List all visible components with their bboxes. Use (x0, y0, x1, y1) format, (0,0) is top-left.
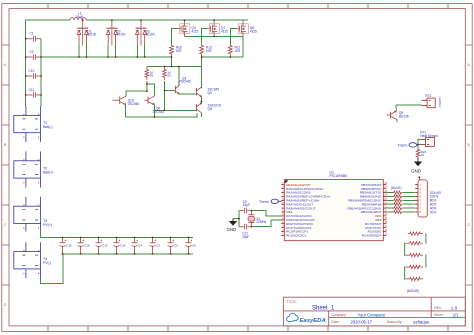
transistor Q7 (MOSFET 4115) (208, 20, 228, 36)
resistor ladder row 2 (405, 242, 424, 245)
svg-text:2SC945: 2SC945 (128, 102, 140, 106)
resistor 1K row 4 (393, 195, 403, 198)
wire RT1 net (418, 140, 421, 149)
svg-text:C6: C6 (192, 244, 196, 248)
capacitor C5 (168, 238, 179, 254)
node junctions crystal (238, 210, 252, 228)
capacitor C2 (26, 50, 41, 60)
svg-text:Q8: Q8 (208, 107, 212, 111)
node junction cap C16 (80, 237, 82, 255)
net flag Therm at IC (259, 199, 281, 204)
svg-text:2SC945: 2SC945 (179, 80, 191, 84)
svg-text:EasyEDA: EasyEDA (300, 318, 326, 324)
resistor ladder row 4 (405, 265, 424, 268)
resistor ladder row 3 (405, 253, 424, 256)
wire gate Q7 to R13 (202, 29, 208, 45)
svg-text:C13: C13 (102, 244, 108, 248)
wire ladder left bracket 2 (404, 243, 406, 256)
svg-text:PIC16F886: PIC16F886 (330, 174, 347, 178)
node junction cap C14 (116, 237, 118, 255)
wire left column (25, 20, 27, 106)
svg-text:Batt(+): Batt(+) (43, 170, 53, 174)
title block (283, 297, 465, 326)
wire Q3 emitter to Q5 base (179, 93, 197, 95)
bargraph labels (430, 191, 442, 215)
connector RT1 Heat Sensor (420, 131, 439, 147)
svg-text:30100: 30100 (87, 33, 96, 37)
resistor 1K row 6 (393, 203, 403, 206)
svg-text:GND: GND (411, 168, 421, 173)
svg-text:Therm: Therm (259, 200, 269, 204)
node junction bottom rail (154, 116, 156, 118)
svg-text:Batt(-): Batt(-) (43, 125, 52, 129)
op-amp U1 PIC16F886 (284, 171, 383, 241)
svg-text:15pF: 15pF (243, 203, 250, 207)
transistor Q8 (2SA1015) (197, 98, 221, 117)
wire R18 bottom to cluster rail (171, 55, 173, 67)
diode D1 (77, 20, 96, 57)
node junctions cluster (146, 66, 202, 112)
svg-text:4115: 4115 (191, 30, 198, 34)
capacitor C13 (96, 238, 108, 254)
svg-text:(6x10K): (6x10K) (407, 289, 420, 293)
wire R1 net to Q6 and Q10 collectors (126, 81, 155, 96)
diode D3 (135, 20, 154, 57)
capacitor C4 (132, 238, 143, 254)
wire OSC2 to IC (251, 220, 281, 227)
resistor R24 (416, 149, 426, 158)
resistor R2 (163, 67, 172, 81)
resistor 1K row 8 (393, 210, 403, 213)
ground GND crystal (227, 219, 238, 233)
node junction cap C3 (152, 237, 154, 255)
svg-text:R2: R2 (167, 74, 171, 78)
svg-text:30100: 30100 (117, 33, 126, 37)
node junction RT1 (417, 144, 419, 146)
resistor R13 (200, 45, 213, 56)
svg-text:Sheet:: Sheet: (434, 313, 444, 317)
capacitor C1 (26, 32, 41, 42)
svg-text:C1: C1 (30, 32, 34, 36)
svg-text:Your Company: Your Company (358, 312, 386, 317)
wire source rail (185, 36, 244, 38)
wire T4 to cap row (41, 254, 63, 284)
wire cap row bottom rail (63, 253, 194, 255)
svg-text:Q5: Q5 (208, 91, 212, 95)
svg-text:RC4/SDI/SDA: RC4/SDI/SDA (362, 234, 382, 238)
wire gate Q4 to R18 (172, 29, 179, 45)
svg-text:4115: 4115 (250, 30, 257, 34)
transistor Q10 (113, 96, 140, 106)
connector T4 (14, 242, 51, 278)
wire top rail (26, 19, 248, 21)
node junction cap C4 (134, 237, 136, 255)
capacitor C11 (26, 88, 41, 98)
net label (6x10K) (407, 289, 420, 293)
connector RT2 (422, 94, 442, 108)
wire R2 net to bases (154, 81, 196, 111)
EasyEDA logo (287, 313, 326, 324)
svg-text:RC3/SCK/SCL: RC3/SCK/SCL (286, 234, 307, 238)
svg-text:20%: 20% (430, 210, 437, 214)
connector T3 (14, 197, 52, 232)
svg-text:C11: C11 (29, 88, 35, 92)
svg-text:Therm: Therm (398, 143, 408, 147)
svg-text:C15: C15 (66, 244, 72, 248)
node junction cap C5 (170, 237, 172, 255)
resistor 1K row 3 (393, 191, 403, 194)
wire gate Q6 to R12 (230, 29, 237, 45)
node junction cap C13 (98, 237, 100, 255)
svg-text:Sheet_1: Sheet_1 (312, 306, 335, 312)
U1 left pin names (286, 183, 330, 238)
capacitor C3 (150, 238, 161, 254)
transistor Q6b (145, 96, 165, 114)
resistor R18 (170, 45, 183, 56)
resistor ladder row 5 (405, 277, 424, 280)
inductor L1 (70, 12, 86, 20)
svg-text:20MHz: 20MHz (256, 220, 267, 224)
resistor R1 (145, 67, 154, 81)
wire OSC1 to IC (251, 211, 281, 216)
capacitor C16 (78, 238, 90, 254)
diode D2 (106, 20, 125, 57)
svg-text:2020-05-17: 2020-05-17 (351, 319, 373, 324)
U1 pin stubs (281, 185, 386, 236)
LED bargraph DS1 (415, 177, 427, 217)
node junctions mosfet rail (184, 19, 215, 37)
svg-text:C4: C4 (138, 244, 142, 248)
capacitor C6 (186, 238, 197, 254)
svg-text:10R: 10R (235, 49, 242, 53)
node junction cap C6 (188, 237, 190, 255)
wire T3 to cap row (41, 231, 193, 238)
connector T2 (14, 151, 54, 187)
wire ladder right bracket 1 (425, 233, 427, 244)
capacitor C15 (60, 238, 72, 254)
svg-text:C10: C10 (29, 69, 35, 73)
svg-text:Drawn By:: Drawn By: (387, 320, 403, 324)
node junctions rails (78, 19, 146, 58)
svg-text:C16: C16 (84, 244, 90, 248)
transistor Q4 (MOSFET 4115) (179, 20, 199, 36)
wire right column (40, 39, 42, 106)
svg-text:10R: 10R (176, 49, 183, 53)
net label (6x1K) (391, 186, 402, 190)
crystal X1 (248, 211, 267, 227)
svg-text:RT2: RT2 (425, 94, 431, 98)
wire cluster bottom rail (126, 105, 198, 117)
wire cluster top rail (147, 66, 202, 68)
svg-text:1/1: 1/1 (453, 312, 459, 317)
svg-text:(+FAN-): (+FAN-) (438, 97, 442, 108)
wire crystal left column (233, 211, 239, 227)
svg-text:C14: C14 (120, 244, 126, 248)
transistor Q3 (175, 67, 190, 95)
svg-text:PV(+): PV(+) (43, 223, 52, 227)
svg-text:15pF: 15pF (242, 235, 249, 239)
capacitor C12 (239, 224, 251, 239)
svg-text:GND: GND (227, 227, 237, 232)
svg-text:azhaque: azhaque (413, 319, 430, 324)
U1 pin numbers (282, 182, 388, 236)
wire ladder left bracket 4 (404, 267, 406, 280)
transistor Q5 (197, 87, 220, 98)
svg-text:BD136: BD136 (399, 114, 409, 118)
svg-text:Company:: Company: (331, 313, 347, 317)
svg-text:C3: C3 (156, 244, 160, 248)
transistor Q6 (MOSFET 4115) (237, 20, 257, 36)
ground GND sensor (411, 158, 422, 174)
svg-text:1.0: 1.0 (451, 305, 458, 310)
svg-text:(6x1K): (6x1K) (391, 186, 402, 190)
wire lower rail (41, 56, 172, 58)
resistor 1K row 5 (393, 199, 403, 202)
resistor 1K row 7 (393, 207, 403, 210)
U1 right pin names (348, 183, 383, 238)
transistor Q9 BD136 (387, 105, 409, 123)
capacitor C10 (26, 69, 41, 79)
bargraph pin numbers (419, 183, 421, 214)
net flag Therm at sensor (398, 143, 419, 148)
svg-text:REV: REV (434, 306, 442, 310)
svg-text:TITLE:: TITLE: (287, 300, 297, 304)
svg-text:30100: 30100 (146, 33, 155, 37)
svg-text:C2: C2 (30, 50, 34, 54)
svg-text:4115: 4115 (221, 30, 228, 34)
svg-text:R1: R1 (150, 74, 154, 78)
capacitor C9 (239, 200, 251, 213)
resistor R12 (228, 45, 241, 56)
wire ladder right bracket 3 (425, 255, 427, 268)
wire bargraph rows (386, 193, 415, 213)
connector T1 (14, 106, 53, 142)
node junctions R bank (171, 56, 232, 58)
wire Q9 to RT2 (396, 104, 422, 106)
svg-text:C5: C5 (174, 244, 178, 248)
node junctions left column (25, 38, 42, 96)
node junction bargraph top (418, 176, 420, 178)
node junction cap C15 (62, 237, 64, 255)
svg-text:PV(-): PV(-) (43, 261, 51, 265)
resistor ladder row 1 (408, 232, 423, 235)
svg-text:Date:: Date: (331, 320, 339, 324)
svg-text:10R: 10R (206, 49, 213, 53)
T-box pin marks (23, 114, 39, 274)
svg-text:10uH: 10uH (76, 15, 84, 19)
wire R13 R12 bottoms to riser (202, 37, 243, 58)
svg-text:1K: 1K (421, 153, 425, 157)
wire Q5 collector (201, 57, 203, 87)
capacitor C14 (114, 238, 126, 254)
